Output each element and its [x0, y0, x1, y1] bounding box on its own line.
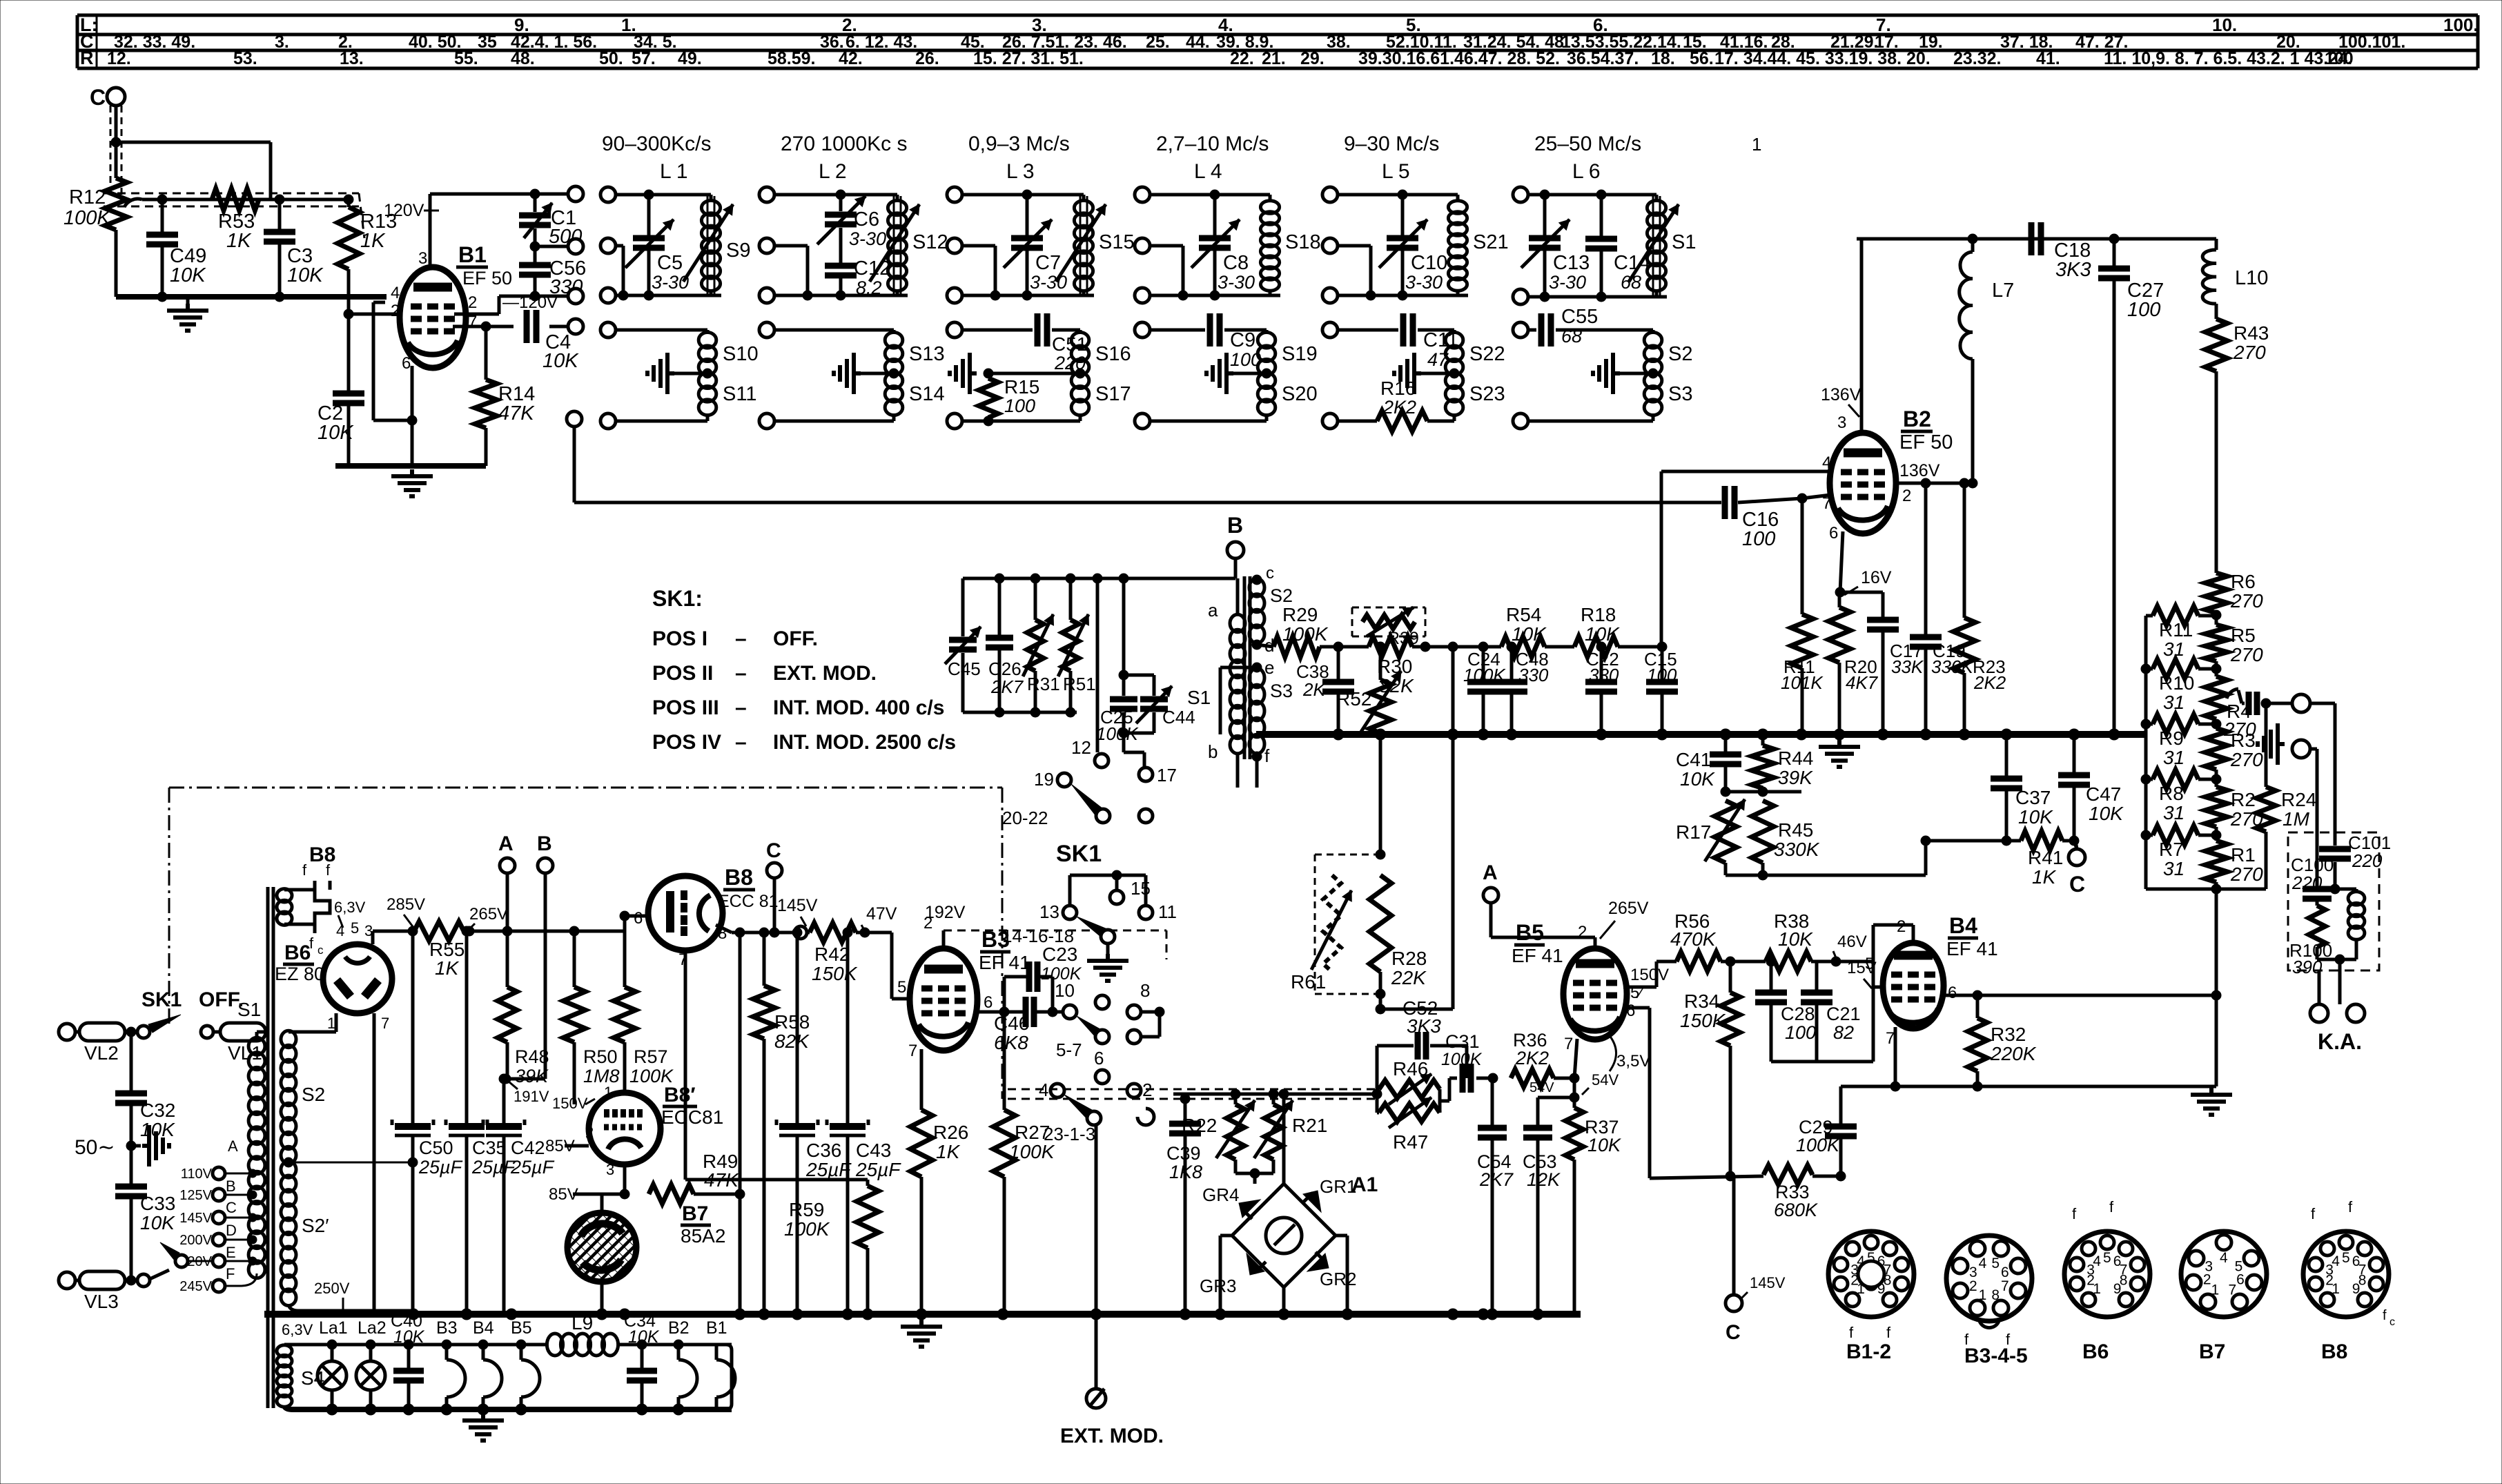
node junction below C: [111, 137, 121, 147]
variable capacitor C8 3-30: [1213, 195, 1217, 235]
terminals L6 lower: [1513, 322, 1528, 338]
svg-text:7: 7: [1886, 1029, 1895, 1048]
svg-text:47K: 47K: [498, 402, 535, 424]
svg-text:R7: R7: [2159, 839, 2184, 860]
svg-text:150V: 150V: [552, 1095, 588, 1112]
svg-text:25–50 Mc/s: 25–50 Mc/s: [1534, 133, 1641, 155]
svg-text:3-30: 3-30: [1218, 272, 1255, 293]
svg-text:EZ 80: EZ 80: [275, 964, 324, 984]
svg-text:S10: S10: [723, 343, 759, 365]
heater B2 (bottom row): [677, 1345, 681, 1360]
capacitor C53 12K: [1538, 1096, 1574, 1100]
svg-text:25.: 25.: [1146, 32, 1170, 52]
resistor R38 10K: [1721, 960, 1766, 964]
svg-text:R30: R30: [1377, 656, 1412, 677]
fuse VL3: [75, 1279, 81, 1282]
resistor R34 150K: [1729, 961, 1732, 993]
svg-text:B6: B6: [2082, 1340, 2109, 1363]
right lower ground line: [1841, 1085, 2216, 1088]
wire B1 pin7 to C4: [453, 325, 514, 329]
svg-text:150V: 150V: [1630, 966, 1669, 984]
svg-text:1K: 1K: [2032, 866, 2057, 888]
svg-text:e: e: [1264, 657, 1274, 678]
svg-text:100K: 100K: [1282, 623, 1329, 645]
svg-text:R6: R6: [2231, 571, 2256, 592]
svg-text:R54: R54: [1506, 604, 1541, 625]
ground tap of S19/S20: [1262, 369, 1271, 378]
variable capacitor C6 3-30: [839, 195, 843, 211]
wire bottom bus of input section: [116, 294, 387, 300]
svg-text:265V: 265V: [469, 905, 508, 924]
svg-text:R57: R57: [634, 1046, 668, 1067]
svg-text:R50: R50: [583, 1046, 618, 1067]
svg-text:120V: 120V: [384, 201, 424, 220]
svg-text:150K: 150K: [812, 963, 858, 984]
svg-text:R10: R10: [2159, 672, 2194, 694]
svg-text:22.: 22.: [1230, 49, 1254, 68]
wire B6 pin7 down to bus: [373, 1013, 376, 1309]
electrolytic C50 25uF: [411, 931, 415, 1125]
svg-text:S13: S13: [909, 343, 945, 365]
svg-text:1: 1: [1752, 134, 1761, 155]
socket diagram B7: [2181, 1231, 2267, 1317]
wire L5 lower top + capacitor C11 47: [1338, 329, 1398, 332]
electrolytic C35 25uF: [449, 1123, 485, 1130]
dashed box K.A. network: [2288, 832, 2379, 970]
tuned coil S15: [1074, 201, 1093, 291]
svg-text:2K7: 2K7: [990, 676, 1024, 697]
svg-text:31: 31: [2163, 802, 2185, 823]
svg-text:S1: S1: [237, 999, 261, 1020]
svg-text:265V: 265V: [1608, 899, 1649, 918]
svg-text:680K: 680K: [1774, 1200, 1818, 1220]
oscillator bottom rail: [963, 711, 1077, 714]
svg-text:4: 4: [1979, 1256, 1987, 1271]
svg-text:R2: R2: [2231, 789, 2256, 810]
svg-text:5-7: 5-7: [1056, 1039, 1082, 1060]
svg-text:B8: B8: [2321, 1340, 2347, 1363]
tuned coil S9: [701, 201, 720, 291]
capacitor C4 10K: [524, 310, 530, 343]
terminals of section L 2 upper: [759, 187, 774, 202]
svg-text:C32: C32: [140, 1100, 175, 1121]
wire 145V down to terminal C: [1732, 1176, 1736, 1294]
svg-text:26.: 26.: [915, 49, 939, 68]
svg-text:B8: B8: [725, 865, 753, 890]
bottom ground bus of B1 stage: [335, 463, 486, 469]
svg-text:39K: 39K: [515, 1066, 549, 1086]
wire C16 to B2 grid pin7: [1738, 498, 1802, 502]
svg-text:R61: R61: [1291, 971, 1326, 993]
variable resistor R47: [1379, 1104, 1440, 1122]
svg-text:270 1000Kc s: 270 1000Kc s: [781, 133, 907, 155]
switch wafer2 ground: [1106, 944, 1110, 954]
svg-text:100: 100: [2325, 49, 2354, 68]
svg-text:R9: R9: [2159, 728, 2184, 749]
svg-text:8: 8: [1991, 1287, 2000, 1303]
svg-text:48.: 48.: [511, 49, 535, 68]
svg-text:5: 5: [2342, 1250, 2350, 1266]
svg-text:a: a: [1208, 600, 1218, 621]
wire B2 pin3 anode up: [1860, 239, 1864, 433]
svg-text:L 4: L 4: [1194, 160, 1222, 183]
svg-text:L9: L9: [571, 1312, 593, 1334]
svg-text:b: b: [1208, 741, 1218, 762]
svg-text:250V: 250V: [314, 1280, 350, 1297]
ground tap of S22/S23: [1449, 369, 1459, 378]
svg-text:55.: 55.: [454, 49, 478, 68]
svg-text:100: 100: [1647, 665, 1677, 685]
svg-text:6: 6: [1094, 1048, 1104, 1068]
svg-text:17: 17: [1157, 765, 1177, 785]
wire L1 terminal2 jog: [616, 244, 623, 248]
svg-text:220: 220: [2352, 850, 2383, 871]
svg-text:6: 6: [984, 993, 993, 1012]
wire -120V step to B1 pin2: [454, 313, 499, 316]
svg-text:f: f: [2348, 1198, 2353, 1215]
oscillator transformer core: [1243, 576, 1247, 759]
wire B8' pin2 left: [565, 1144, 589, 1148]
svg-text:470K: 470K: [1670, 928, 1717, 950]
svg-text:10: 10: [1055, 980, 1075, 1001]
svg-text:R18: R18: [1581, 604, 1616, 625]
svg-text:100.: 100.: [2443, 14, 2479, 35]
svg-text:S23: S23: [1469, 383, 1505, 405]
resistor R33 680K: [1763, 1165, 1812, 1184]
capacitor C28 100: [1770, 961, 1773, 990]
capacitor C101 220: [2319, 846, 2351, 852]
resistor R58 82K: [763, 933, 766, 986]
50Hz source node: [126, 1141, 136, 1151]
svg-text:220: 220: [2291, 872, 2323, 893]
svg-text:9: 9: [2352, 1281, 2361, 1297]
svg-text:B1: B1: [458, 242, 487, 267]
capacitor C32 10K: [130, 1032, 133, 1091]
svg-text:6: 6: [1829, 524, 1838, 543]
wire B4 pin5 left: [1873, 986, 1883, 989]
svg-text:L 1: L 1: [660, 160, 688, 183]
terminals L1 lower: [600, 322, 616, 338]
svg-text:3-30: 3-30: [1405, 272, 1443, 293]
svg-text:S12: S12: [912, 231, 948, 253]
svg-text:2K2: 2K2: [1973, 672, 2006, 693]
terminals of section L 6 upper: [1513, 187, 1528, 202]
svg-text:3: 3: [606, 1161, 614, 1178]
dashed line 192V to switch: [942, 930, 946, 948]
svg-text:10K: 10K: [287, 264, 324, 286]
transformer core: [266, 887, 270, 1408]
resistor R11 101K: [1801, 498, 1804, 614]
svg-text:f: f: [1849, 1324, 1854, 1341]
terminal B above transformer: [1227, 542, 1244, 558]
svg-text:POS I: POS I: [652, 627, 707, 650]
socket diagram B3-4-5: [1946, 1236, 2032, 1321]
svg-text:B7: B7: [682, 1202, 708, 1225]
terminals L2 lower: [759, 322, 774, 338]
wire L4 terminal2 jog: [1150, 244, 1183, 248]
tuned coil S1: [1647, 201, 1665, 291]
svg-text:1: 1: [2211, 1282, 2220, 1298]
wire L2 lower top: [774, 329, 894, 332]
variable capacitor C10 3-30: [1401, 195, 1405, 235]
svg-text:25µF: 25µF: [855, 1159, 901, 1180]
svg-text:R24: R24: [2281, 789, 2316, 810]
capacitor C3 10K: [278, 199, 282, 232]
terminal A power: [500, 858, 515, 873]
capacitor C17 33K: [1882, 592, 1885, 618]
wire L6 top: [1528, 193, 1656, 197]
switch wafer1 contact 17: [1139, 768, 1153, 781]
terminal B power: [538, 858, 553, 873]
svg-text:S21: S21: [1473, 231, 1509, 253]
svg-text:1: 1: [2093, 1281, 2101, 1297]
coil in K.A. network: [2335, 888, 2356, 891]
svg-text:31: 31: [2163, 638, 2185, 660]
capacitor C100 220: [2316, 832, 2319, 887]
svg-text:3: 3: [418, 249, 427, 268]
svg-text:GR3: GR3: [1200, 1276, 1236, 1296]
resistor R55 1K: [414, 921, 464, 941]
svg-text:200V: 200V: [179, 1233, 212, 1248]
socket diagram B6: [2064, 1231, 2150, 1317]
svg-text:R8: R8: [2159, 783, 2184, 804]
resistor R10 31: [2146, 667, 2153, 671]
svg-text:C36: C36: [806, 1140, 841, 1161]
svg-text:82K: 82K: [774, 1031, 810, 1052]
heater row bottom rail: [284, 1406, 732, 1409]
switch wafer2 contact 13 with lever: [1063, 906, 1077, 919]
terminals of section L 1 upper: [600, 187, 616, 202]
svg-text:S2: S2: [1668, 343, 1692, 365]
svg-text:B1-2: B1-2: [1846, 1340, 1891, 1363]
svg-text:5: 5: [351, 919, 359, 937]
svg-text:10K: 10K: [2089, 803, 2124, 824]
svg-text:R59: R59: [789, 1199, 824, 1220]
svg-text:1K: 1K: [360, 230, 386, 252]
svg-text:POS II: POS II: [652, 662, 713, 685]
coil S16 S17: [1071, 333, 1089, 416]
ground below input bus: [186, 297, 190, 304]
svg-text:D: D: [226, 1222, 237, 1239]
ground tap of S13/S14: [889, 369, 899, 378]
resistor R3 270: [2215, 719, 2218, 728]
svg-text:4: 4: [391, 284, 400, 302]
svg-text:R47: R47: [1393, 1131, 1428, 1153]
svg-text:C47: C47: [2086, 783, 2121, 805]
svg-text:C43: C43: [856, 1140, 891, 1161]
svg-text:1K8: 1K8: [1169, 1162, 1202, 1182]
svg-text:4: 4: [336, 922, 344, 939]
terminal C bottom: [1726, 1295, 1742, 1311]
svg-text:R52: R52: [1336, 688, 1371, 710]
terminals L4 lower: [1135, 322, 1150, 338]
variable resistor R21: [1264, 1104, 1282, 1160]
svg-text:B5: B5: [1516, 920, 1544, 945]
tube B4 EF41: [1883, 943, 1944, 1028]
variable resistor R52: [1369, 680, 1391, 733]
svg-text:4K7: 4K7: [1846, 672, 1879, 693]
svg-text:C31: C31: [1445, 1031, 1480, 1052]
svg-text:B3-4-5: B3-4-5: [1964, 1345, 2028, 1367]
svg-text:EF 50: EF 50: [1899, 431, 1953, 453]
capacitor C23 100K: [1004, 975, 1028, 979]
wire B7 anode up: [600, 1194, 604, 1213]
switch wafer2 contact 14-16-18: [1101, 930, 1115, 944]
svg-text:10K: 10K: [170, 264, 206, 286]
coil L10: [2215, 239, 2218, 250]
capacitor C15 100: [1661, 647, 1664, 680]
svg-text:2: 2: [468, 293, 477, 312]
svg-text:—120V: —120V: [502, 293, 558, 312]
label 191V: [509, 1082, 518, 1089]
svg-text:17. 34.44. 45. 33.19. 38. 20.: 17. 34.44. 45. 33.19. 38. 20.: [1714, 49, 1931, 68]
resistor R41 1K: [2021, 831, 2062, 850]
svg-text:3K3: 3K3: [2055, 259, 2091, 281]
capacitor C47 10K: [2073, 734, 2076, 773]
variable resistor R61 dashed box: [1314, 855, 1316, 994]
wire L2 top: [774, 193, 897, 197]
resistor R49 47K: [649, 1184, 694, 1204]
svg-text:136V: 136V: [1899, 461, 1940, 480]
svg-text:3K3: 3K3: [1407, 1015, 1441, 1037]
svg-text:L 3: L 3: [1006, 160, 1035, 183]
terminal C mid right: [2075, 841, 2077, 849]
switch contact mains top: [137, 1026, 150, 1038]
svg-text:1: 1: [327, 1015, 335, 1032]
svg-text:R12: R12: [69, 186, 106, 208]
oscillator transformer primary S1 winding: [1230, 614, 1245, 754]
svg-text:35: 35: [478, 32, 497, 52]
wire B3 pin7 down to R26: [920, 1049, 923, 1110]
variable resistor R31: [1034, 578, 1037, 620]
wire coax from terminal C down: [110, 106, 112, 197]
svg-text:C50: C50: [419, 1138, 453, 1158]
svg-text:10K: 10K: [1587, 1135, 1621, 1155]
svg-text:7: 7: [381, 1015, 389, 1032]
svg-text:31: 31: [2163, 692, 2185, 713]
ground + R15 tap of S16/S17: [1075, 369, 1085, 378]
resistor R50 1M8: [573, 931, 576, 987]
resistor R29 100K: [1257, 645, 1273, 647]
wire L5 bottom: [1338, 294, 1468, 297]
resistor R37 10K: [1565, 1108, 1583, 1160]
svg-text:100: 100: [1742, 528, 1775, 550]
svg-text:B2: B2: [668, 1318, 690, 1338]
svg-text:100: 100: [2127, 299, 2160, 321]
wire S2 tap to C50 bottom node: [289, 1162, 413, 1164]
component location table frame: [77, 15, 2478, 68]
B+ rail 265V: [464, 930, 625, 933]
svg-text:L7: L7: [1992, 280, 2014, 302]
svg-text:11: 11: [1158, 901, 1177, 922]
svg-text:9–30 Mc/s: 9–30 Mc/s: [1344, 133, 1439, 155]
terminals of section L 5 upper: [1322, 187, 1338, 202]
wire f to shielded pair down: [1255, 756, 1259, 788]
svg-text:R15: R15: [1004, 376, 1039, 398]
node C1-C56 junction: [530, 242, 540, 251]
resistor R48 39K: [506, 931, 509, 987]
wire R12 wiper to R13: [142, 198, 349, 202]
svg-text:VL2: VL2: [84, 1042, 119, 1064]
variable resistor R17: [1714, 801, 1737, 863]
wire B4 pin6 to ladder: [1944, 994, 2216, 997]
svg-text:245V: 245V: [179, 1279, 212, 1294]
svg-text:GR1: GR1: [1320, 1176, 1356, 1197]
output terminal 1: [2292, 694, 2310, 712]
terminal C modulation: [767, 863, 782, 878]
svg-text:C: C: [1726, 1321, 1741, 1344]
svg-text:10K: 10K: [140, 1212, 175, 1233]
svg-text:La2: La2: [358, 1318, 387, 1338]
svg-text:25µF: 25µF: [471, 1157, 516, 1178]
heater row winding S4: [277, 1345, 292, 1407]
svg-text:7: 7: [908, 1042, 917, 1060]
svg-text:R21: R21: [1292, 1115, 1327, 1136]
svg-text:16V: 16V: [1861, 568, 1892, 587]
resistor R53 1K: [212, 188, 259, 211]
svg-text:S22: S22: [1469, 343, 1505, 365]
svg-text:31: 31: [2163, 747, 2185, 768]
capacitor C27 100 branch: [2113, 239, 2116, 266]
capacitor C52 3K3 bypass: [1376, 1046, 1379, 1094]
wire L4 lower bottom: [1150, 420, 1267, 423]
wire B1 pin6 cathode down: [411, 366, 414, 466]
svg-text:270: 270: [2230, 749, 2263, 770]
svg-text:110V: 110V: [181, 1166, 213, 1182]
svg-text:10.: 10.: [2212, 14, 2237, 35]
svg-text:S9: S9: [726, 240, 750, 262]
svg-text:R42: R42: [814, 944, 850, 965]
svg-text:12K: 12K: [1527, 1169, 1561, 1190]
svg-text:100K: 100K: [63, 207, 111, 229]
svg-text:S2: S2: [302, 1084, 325, 1105]
capacitor C21 82: [1815, 977, 1819, 990]
svg-text:S17: S17: [1095, 383, 1131, 405]
resistor R42 150K: [807, 931, 810, 935]
variable capacitor C45: [961, 578, 965, 636]
ladder bottom wire: [2146, 888, 2266, 891]
svg-text:POS III: POS III: [652, 696, 719, 719]
16V node rail: [1840, 591, 1883, 594]
svg-text:B6: B6: [284, 941, 311, 964]
resistor R36 2K2: [1511, 1069, 1554, 1087]
svg-text:3.: 3.: [275, 32, 289, 52]
wire L4 lower top + capacitor C9 100: [1150, 329, 1205, 332]
mains transformer primary winding S1: [248, 1037, 265, 1278]
svg-text:B: B: [226, 1178, 236, 1195]
resistor R13 1K: [344, 195, 353, 204]
svg-text:1: 1: [604, 1084, 612, 1101]
switch contact mains bottom: [137, 1274, 150, 1287]
contact right + fuse VL1: [201, 1026, 213, 1038]
wire R28 bottom to C24 branch: [1380, 1008, 1453, 1011]
heater B1 (bottom row): [715, 1345, 719, 1360]
svg-text:3: 3: [1837, 413, 1846, 432]
wiper output wire and capacitor: [2238, 690, 2242, 703]
svg-text:ECC81: ECC81: [661, 1106, 723, 1128]
wire L4 bottom: [1150, 294, 1280, 297]
svg-text:6K8: 6K8: [994, 1032, 1028, 1053]
svg-text:270: 270: [2233, 342, 2266, 363]
svg-text:R16: R16: [1380, 378, 1416, 399]
capacitor C25 100K: [1122, 578, 1126, 696]
variable capacitor C1 500: [534, 194, 537, 212]
socket diagram B8: [2303, 1231, 2389, 1317]
svg-text:C37: C37: [2015, 787, 2051, 808]
wire C28/C21 bottoms: [1771, 1060, 1817, 1064]
wire B5 cathode down: [1574, 1039, 1577, 1078]
svg-text:C45: C45: [948, 658, 981, 679]
